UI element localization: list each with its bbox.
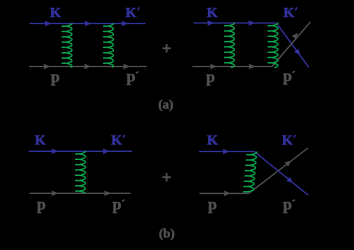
arrow on proton diagonal (a-right)	[292, 33, 298, 39]
svg-text:K: K	[282, 134, 293, 149]
svg-text:p: p	[127, 69, 136, 86]
svg-text:(a): (a)	[158, 97, 173, 112]
arrow on kaon diagonal (a-right)	[294, 49, 299, 55]
prime tick of label p' (b-left)	[122, 200, 124, 202]
svg-text:p: p	[206, 69, 215, 86]
prime tick of label K' (a-right)	[295, 7, 297, 10]
exchange coil 2 (a-right)	[268, 23, 278, 68]
prime tick of label p' (b-right)	[293, 200, 295, 202]
kaon line K->K' (a-left)	[30, 23, 146, 25]
svg-text:K: K	[283, 6, 294, 21]
arrow on kaon diagonal (b-right)	[287, 177, 293, 183]
arrow on proton line (a-left)	[124, 64, 130, 69]
kaon line diagonal (b-right)	[254, 152, 308, 196]
svg-text:p: p	[51, 69, 60, 86]
arrow on kaon line (a-right)	[208, 21, 214, 26]
prime tick of label K' (b-right)	[294, 135, 296, 138]
proton line p->p' (b-left)	[30, 192, 131, 194]
prime tick of label K' (b-left)	[123, 135, 125, 138]
svg-text:K: K	[50, 6, 61, 21]
svg-text:K: K	[126, 6, 137, 21]
arrow on kaon line (b-left)	[52, 149, 58, 154]
arrow on kaon line (a-right)	[249, 21, 255, 26]
proton line p->p' (a-left)	[29, 66, 147, 68]
arrow on proton line (b-left)	[105, 191, 111, 196]
arrow on proton line (a-right)	[210, 64, 216, 69]
svg-text:K: K	[207, 6, 218, 21]
kaon line diagonal (a-right)	[276, 23, 308, 67]
kaon line horizontal (a-right)	[194, 22, 277, 24]
kaon line K->K' (b-left)	[29, 150, 133, 152]
exchange coil 1 (a-right)	[225, 23, 235, 68]
plus sign row b	[162, 173, 171, 182]
arrow on proton line (a-left)	[85, 64, 91, 69]
exchange coil 2 (a-left)	[104, 24, 114, 68]
kaon line horizontal (b-right)	[199, 151, 254, 153]
prime tick of label p' (a-left)	[136, 72, 138, 74]
arrow on proton line (a-left)	[44, 64, 50, 69]
prime tick of label p' (a-right)	[293, 71, 295, 73]
svg-text:p: p	[113, 197, 122, 214]
proton line horizontal (a-right)	[192, 66, 272, 68]
proton line diagonal (a-right)	[272, 22, 311, 67]
exchange coil (b-right)	[244, 152, 258, 192]
arrow on kaon line (a-left)	[85, 21, 91, 26]
prime tick of label K' (a-left)	[138, 7, 140, 10]
proton line horizontal (b-right)	[199, 192, 248, 194]
svg-text:K: K	[111, 134, 122, 149]
exchange coil 1 (a-left)	[62, 24, 72, 68]
arrow on kaon line (a-left)	[122, 21, 128, 26]
svg-text:(b): (b)	[159, 225, 175, 240]
svg-text:p: p	[283, 197, 292, 214]
arrow on proton line (b-right)	[224, 191, 230, 196]
arrow on kaon line (a-left)	[45, 21, 51, 26]
svg-text:p: p	[37, 197, 46, 214]
arrow on kaon line (b-left)	[103, 149, 109, 154]
svg-text:K: K	[35, 134, 46, 149]
svg-text:K: K	[207, 134, 218, 149]
svg-text:p: p	[208, 197, 217, 214]
arrow on proton diagonal (b-right)	[285, 161, 291, 167]
arrow on proton line (a-right)	[249, 64, 255, 69]
arrow on kaon line (b-right)	[223, 149, 229, 154]
arrow on proton line (b-left)	[52, 191, 58, 196]
proton line diagonal (b-right)	[249, 148, 308, 193]
plus sign row a	[162, 44, 171, 53]
exchange coil (b-left)	[76, 151, 86, 192]
svg-text:p: p	[283, 68, 292, 85]
